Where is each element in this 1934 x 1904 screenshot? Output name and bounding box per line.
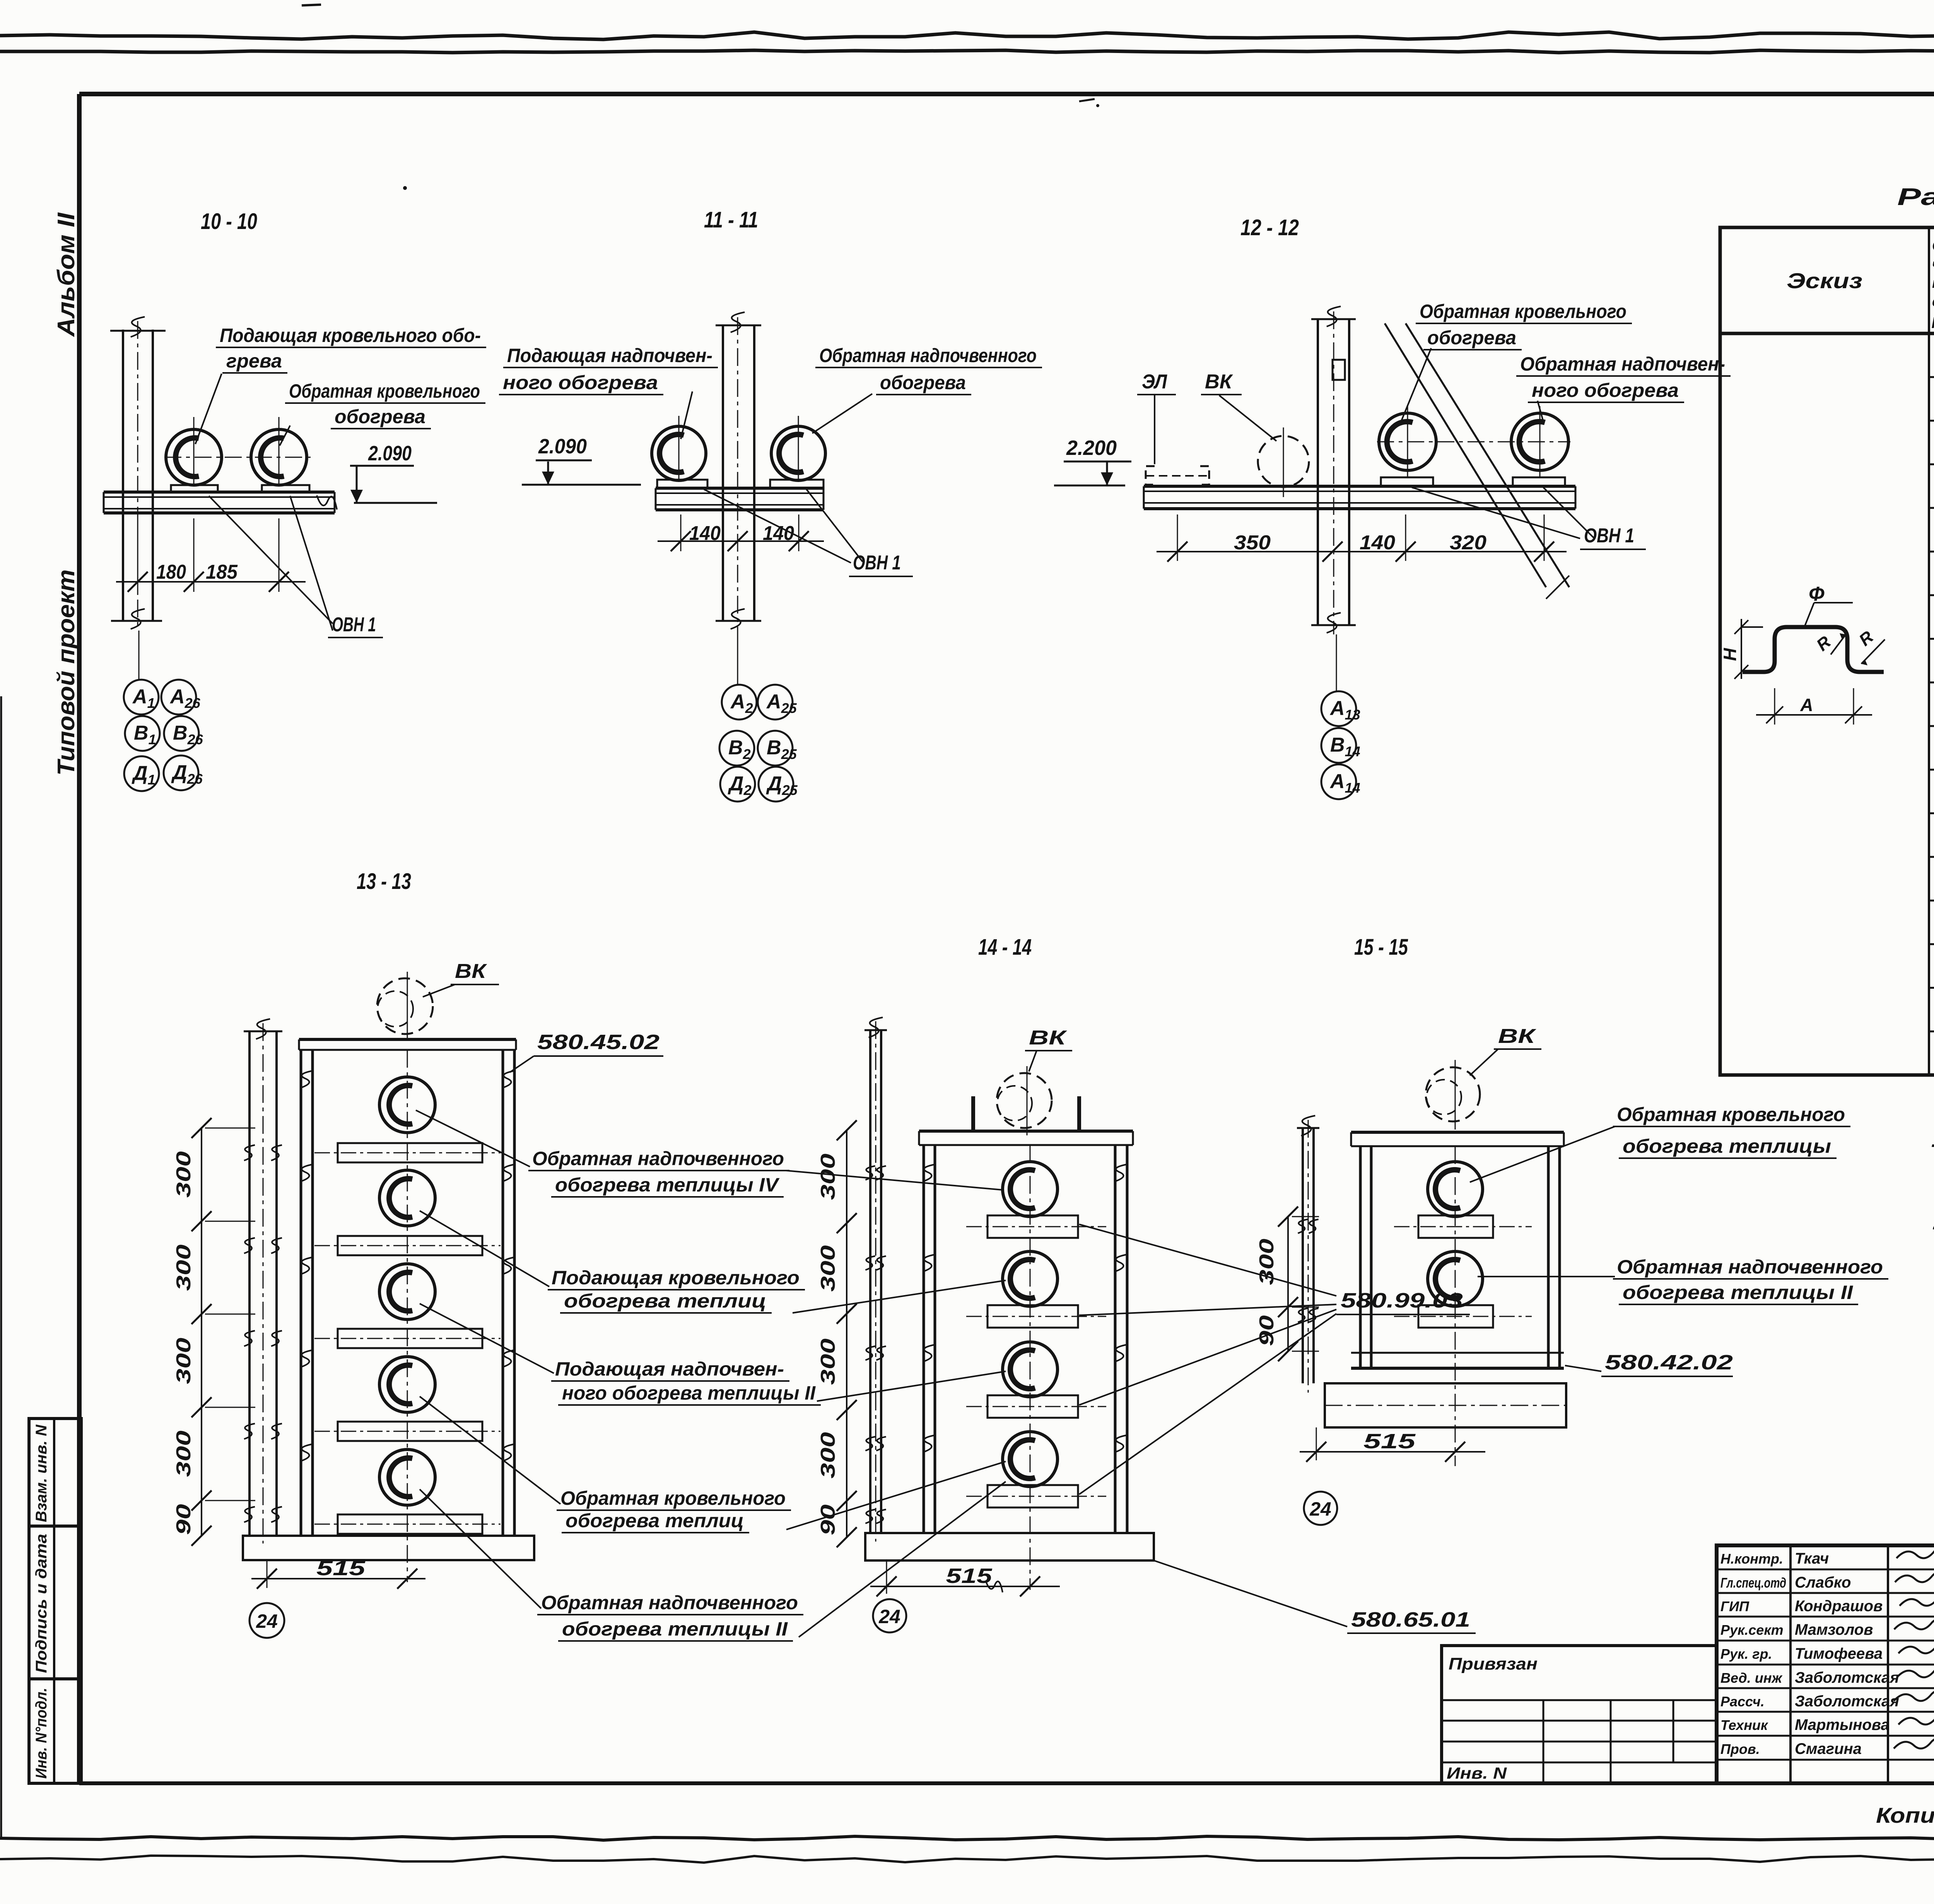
14-14 axis centerline	[1030, 1145, 1031, 1590]
15-15 top beam	[1351, 1131, 1564, 1134]
frame border	[79, 92, 1934, 96]
svg-text:компен-: компен-	[1932, 275, 1934, 291]
svg-text:ОВН 1: ОВН 1	[853, 552, 901, 574]
svg-text:Рук. гр.: Рук. гр.	[1720, 1646, 1772, 1662]
svg-text:обогрева теплицы II: обогрева теплицы II	[1623, 1282, 1853, 1303]
svg-text:Обозна-: Обозна-	[1932, 238, 1934, 254]
svg-text:90: 90	[817, 1504, 839, 1535]
leaders from labels to 14-14	[786, 1171, 1003, 1190]
12-12 pipe return roof heating	[1379, 413, 1436, 470]
svg-text:300: 300	[173, 1151, 195, 1198]
12-12 column	[1317, 319, 1319, 625]
svg-text:90: 90	[173, 1504, 195, 1535]
svg-text:обогрева: обогрева	[1427, 327, 1516, 349]
10-10 grid circle B26	[164, 716, 199, 751]
12-12 grid circle B14	[1321, 728, 1356, 763]
privyazan table	[1442, 1646, 1717, 1783]
svg-text:320: 320	[1450, 532, 1486, 554]
15-15 saddles	[1394, 1226, 1532, 1227]
15-15 base plate	[1325, 1383, 1566, 1427]
15-15 frame bottom	[1351, 1352, 1564, 1354]
svg-text:Подающая кровельного обо-: Подающая кровельного обо-	[220, 325, 481, 346]
11-11 pipe return soil heating	[771, 426, 825, 480]
svg-text:чение: чение	[1932, 256, 1934, 273]
12-12 clamp on column	[1333, 360, 1345, 380]
15-15 frame members	[1359, 1146, 1362, 1368]
svg-text:350: 350	[1234, 532, 1271, 554]
svg-text:Мамзолов: Мамзолов	[1795, 1621, 1873, 1638]
svg-text:Инв. N°подл.: Инв. N°подл.	[33, 1688, 50, 1779]
15-15 left column	[1302, 1128, 1304, 1383]
14-14 top posts	[971, 1096, 975, 1131]
svg-text:Подающая кровельного: Подающая кровельного	[552, 1267, 800, 1289]
svg-text:Обратная кровельного: Обратная кровельного	[560, 1487, 786, 1509]
10-10 grid circle A26	[161, 680, 196, 714]
svg-text:ВК: ВК	[1205, 371, 1233, 393]
13-13 pipes	[379, 1077, 435, 1133]
13-13 dims 300x4 90	[201, 1128, 202, 1536]
12-12 grid circle A14	[1321, 764, 1356, 799]
svg-text:Подающая надпочвен-: Подающая надпочвен-	[507, 345, 712, 366]
svg-text:Инв. N: Инв. N	[1447, 1764, 1507, 1782]
12-12 beam	[1144, 485, 1575, 488]
10-10 pipe return roof heating	[251, 429, 307, 485]
svg-text:Альбом II: Альбом II	[53, 212, 80, 337]
15-15 axis centerline	[1455, 1146, 1456, 1466]
svg-text:15 - 15: 15 - 15	[1354, 935, 1408, 960]
13-13 VK dashed circles	[377, 978, 433, 1034]
svg-text:180: 180	[156, 561, 186, 583]
svg-text:10 - 10: 10 - 10	[201, 209, 257, 234]
svg-text:Рук.сект: Рук.сект	[1720, 1622, 1784, 1638]
11-11 grid circle A2	[722, 685, 757, 720]
10-10 column	[122, 330, 124, 621]
11-11 pipe supply soil heating	[652, 426, 706, 480]
15-15 VK dashed circles	[1426, 1067, 1480, 1121]
svg-text:ГИП: ГИП	[1720, 1598, 1749, 1614]
14-14 dim 515	[886, 1560, 887, 1594]
svg-text:ного обогрева: ного обогрева	[1532, 379, 1679, 401]
svg-text:Обратная кровельного: Обратная кровельного	[289, 380, 480, 402]
svg-text:ВК: ВК	[1029, 1027, 1067, 1049]
svg-text:300: 300	[1256, 1239, 1278, 1285]
svg-text:Кондрашов: Кондрашов	[1795, 1598, 1883, 1615]
top straight scan line	[0, 50, 1934, 53]
14-14 left column	[869, 1030, 871, 1533]
svg-text:Типовой проект: Типовой проект	[53, 569, 80, 776]
13-13 compensator sleeves	[314, 1152, 501, 1154]
12-12 pipe return soil heating	[1511, 413, 1568, 470]
svg-text:90: 90	[1256, 1315, 1278, 1346]
svg-text:ЭЛ: ЭЛ	[1142, 371, 1167, 393]
svg-text:580.45.02: 580.45.02	[537, 1031, 659, 1054]
14-14 member breaks	[923, 1164, 935, 1181]
10-10 grid circle D1	[124, 756, 159, 791]
svg-text:Обратная кровельного: Обратная кровельного	[1420, 301, 1626, 322]
10-10 pipe supports OVN1	[171, 485, 218, 492]
11-11 grid circle A25	[758, 685, 793, 720]
svg-text:Обратная кровельного: Обратная кровельного	[1617, 1104, 1845, 1125]
11-11 grid circle B2	[719, 731, 754, 766]
svg-text:Гл.спец.отд: Гл.спец.отд	[1720, 1575, 1786, 1591]
svg-text:ВК: ВК	[1498, 1025, 1536, 1048]
svg-text:Заболотская: Заболотская	[1795, 1693, 1899, 1710]
svg-text:580.42.02: 580.42.02	[1605, 1351, 1733, 1374]
svg-text:185: 185	[206, 561, 238, 583]
svg-text:сато-: сато-	[1932, 294, 1934, 310]
svg-text:Вед. инж: Вед. инж	[1720, 1670, 1783, 1686]
svg-text:Заболотская: Заболотская	[1795, 1669, 1899, 1686]
svg-text:Н: Н	[1720, 648, 1740, 661]
13-13 dim 515	[267, 1560, 268, 1588]
svg-text:Мартынова: Мартынова	[1795, 1716, 1890, 1733]
13-13 frame top beam	[299, 1038, 516, 1041]
svg-text:300: 300	[173, 1431, 195, 1477]
svg-text:обогрева: обогрева	[880, 372, 966, 393]
eskiz sketch profile	[1743, 627, 1884, 672]
svg-text:обогрева теплицы IV: обогрева теплицы IV	[555, 1174, 780, 1196]
stray marks	[302, 5, 321, 5]
svg-text:Смагина: Смагина	[1795, 1740, 1862, 1757]
12-12 dashed circle VK	[1258, 436, 1309, 487]
svg-text:ного обогрева: ного обогрева	[503, 372, 658, 393]
svg-text:Размеры: Размеры	[1897, 184, 1934, 210]
10-10 grid circle B1	[125, 716, 160, 751]
svg-text:Обратная надпочвенного: Обратная надпочвенного	[1617, 1256, 1883, 1278]
svg-text:300: 300	[173, 1244, 195, 1291]
14-14 grid circle 24	[873, 1599, 906, 1632]
eskiz dim H	[1741, 619, 1742, 679]
15-15 pipes	[1428, 1162, 1483, 1217]
svg-text:Обратная надпочвенного: Обратная надпочвенного	[541, 1592, 798, 1613]
svg-text:140: 140	[689, 522, 721, 545]
svg-text:300: 300	[817, 1338, 839, 1385]
13-13 member breaks	[301, 1071, 313, 1088]
12-12 dim 350 140 320	[1177, 514, 1178, 561]
left paper edge sliver	[0, 696, 2, 1837]
svg-text:580.65.01: 580.65.01	[1351, 1608, 1470, 1631]
svg-text:обогрева теплицы II: обогрева теплицы II	[562, 1618, 788, 1640]
11-11 column	[722, 325, 724, 621]
14-14 VK dashed circles	[997, 1073, 1052, 1128]
svg-text:Ткач: Ткач	[1795, 1550, 1829, 1567]
eskiz dim A	[1774, 688, 1775, 725]
11-11 axis line	[737, 631, 738, 684]
svg-text:обогрева теплиц: обогрева теплиц	[564, 1290, 766, 1312]
11-11 pipe supports	[657, 480, 707, 488]
12-12 dashed channel EL	[1146, 466, 1155, 485]
svg-text:ра: ра	[1932, 312, 1934, 328]
svg-text:Пров.: Пров.	[1720, 1741, 1760, 1757]
10-10 dim 180 185	[137, 518, 138, 592]
11-11 grid circle B25	[758, 731, 793, 766]
GOST margin boxes	[29, 1419, 81, 1783]
svg-text:Эскиз: Эскиз	[1787, 268, 1862, 293]
10-10 grid circle D26	[164, 755, 198, 790]
10-10 grid circle A1	[124, 680, 159, 714]
svg-text:Обратная надпочвенного: Обратная надпочвенного	[819, 345, 1037, 366]
11-11 grid circle D25	[759, 767, 793, 802]
svg-text:13 - 13: 13 - 13	[357, 869, 411, 894]
svg-text:11 - 11: 11 - 11	[704, 207, 758, 232]
13-13 leaders to shared labels	[416, 1110, 530, 1167]
13-13 base plate	[243, 1536, 534, 1560]
svg-text:Обратная надпочвенного: Обратная надпочвенного	[532, 1148, 784, 1169]
14-14 dims 300x4 90	[846, 1130, 847, 1537]
svg-text:А: А	[1800, 695, 1813, 715]
svg-text:140: 140	[1360, 532, 1395, 554]
svg-text:300: 300	[817, 1154, 839, 1200]
13-13 left column	[248, 1031, 251, 1536]
svg-text:Тимофеева: Тимофеева	[1795, 1645, 1883, 1662]
svg-text:515: 515	[946, 1564, 993, 1588]
svg-text:2.090: 2.090	[538, 435, 587, 458]
11-11 beam	[656, 487, 823, 490]
12-12 grid circle A13	[1321, 691, 1356, 726]
svg-text:Подающая надпочвен-: Подающая надпочвен-	[555, 1358, 784, 1380]
svg-text:24: 24	[256, 1610, 278, 1632]
14-14 saddles	[966, 1226, 1106, 1227]
14-14 top beam	[919, 1130, 1133, 1133]
torn paper edge top	[0, 32, 1934, 39]
svg-text:Подпись и дата: Подпись и дата	[33, 1534, 50, 1673]
table grid	[1720, 227, 1934, 1075]
15-15 dim 515	[1316, 1427, 1317, 1460]
svg-text:1. Компенсаторы приняты с п: 1. Компенсаторы приняты с предвари-	[1931, 1127, 1934, 1152]
torn paper edge bottom	[0, 1836, 1934, 1840]
14-14 frame members	[923, 1145, 925, 1533]
svg-text:ВК: ВК	[455, 960, 487, 983]
svg-text:2.200: 2.200	[1066, 436, 1117, 460]
svg-text:515: 515	[316, 1557, 366, 1580]
title block stamp	[1717, 1545, 1934, 1783]
svg-text:Техник: Техник	[1720, 1717, 1768, 1733]
svg-text:ного обогрева теплицы II: ного обогрева теплицы II	[562, 1382, 816, 1404]
12-12 axis line	[1336, 634, 1337, 691]
svg-text:ОВН 1: ОВН 1	[332, 614, 376, 636]
svg-text:140: 140	[763, 522, 794, 545]
svg-text:Взам. инв. N: Взам. инв. N	[33, 1424, 50, 1522]
svg-text:24: 24	[1309, 1498, 1331, 1520]
svg-text:Слабко: Слабко	[1795, 1574, 1851, 1591]
svg-text:12 - 12: 12 - 12	[1240, 215, 1299, 240]
svg-text:300: 300	[817, 1432, 839, 1478]
12-12 pipe supports	[1381, 477, 1433, 486]
11-11 dim 140 140	[680, 514, 682, 551]
svg-text:обогрева теплицы: обогрева теплицы	[1623, 1135, 1831, 1157]
10-10 pipe supply roof heating	[166, 429, 222, 485]
svg-text:300: 300	[817, 1245, 839, 1292]
14-14 base plate	[865, 1533, 1154, 1560]
svg-text:Обратная надпочвен-: Обратная надпочвен-	[1520, 353, 1725, 375]
12-12 diagonal braces	[1385, 323, 1546, 587]
svg-text:515: 515	[1363, 1430, 1416, 1453]
svg-text:14 - 14: 14 - 14	[978, 935, 1032, 960]
14-14 pipes	[1003, 1162, 1058, 1217]
svg-text:обогрева: обогрева	[335, 406, 425, 427]
svg-text:Рассч.: Рассч.	[1720, 1694, 1765, 1709]
15-15 grid circle 24	[1304, 1492, 1337, 1525]
svg-text:Привязан: Привязан	[1449, 1654, 1538, 1673]
svg-text:300: 300	[173, 1338, 195, 1384]
15-15 dims 300 90	[1287, 1217, 1289, 1351]
13-13 grid circle 24	[249, 1603, 284, 1638]
svg-text:обогрева теплиц: обогрева теплиц	[566, 1510, 744, 1531]
13-13 axis centerline	[407, 1050, 408, 1582]
svg-text:Н.контр.: Н.контр.	[1720, 1551, 1783, 1567]
13-13 frame members	[300, 1050, 302, 1536]
11-11 grid circle D2	[720, 767, 755, 802]
10-10 beam	[104, 491, 335, 494]
svg-text:Копировал Николаева: Копировал Николаева	[1876, 1803, 1934, 1827]
svg-text:2.090: 2.090	[368, 442, 412, 465]
10-10 axis line to grid circles	[138, 631, 140, 680]
svg-text:грева: грева	[226, 350, 282, 372]
svg-text:24: 24	[878, 1606, 900, 1627]
